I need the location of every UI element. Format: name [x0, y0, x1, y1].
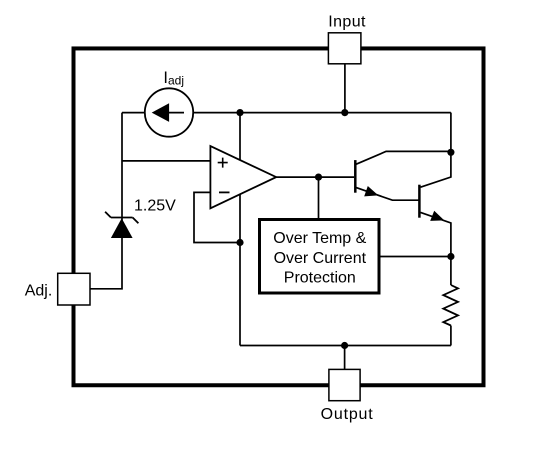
wire: feedback vertical from top rail down to bottom rail — [239, 113, 241, 346]
svg-text:Output: Output — [321, 406, 374, 423]
wire: top horizontal rail from left vertical to right vertical — [122, 112, 451, 114]
current source I_adj — [145, 88, 193, 136]
wire: output node to output pin — [344, 346, 346, 370]
junction node: op-amp output — [315, 174, 322, 181]
wire: Q1 collector — [356, 151, 451, 164]
resistor R1 — [443, 285, 458, 326]
wire: output node down into protection box — [318, 177, 320, 219]
junction node: input rail — [341, 109, 348, 116]
wire: bottom horizontal rail — [240, 345, 451, 347]
junction node: feedback top — [236, 109, 243, 116]
Output terminal pin — [329, 369, 360, 400]
wire: op-amp inverting input feedback loop — [194, 192, 240, 242]
junction node: output rail — [341, 342, 348, 349]
svg-text:Adj.: Adj. — [25, 283, 53, 300]
wire: protection box output to emitter node — [379, 256, 451, 258]
zener diode D1 1.25V — [105, 212, 138, 238]
svg-text:Input: Input — [328, 13, 366, 30]
junction node: protection/emitter — [447, 253, 454, 260]
wire: input pin to main rail — [344, 64, 346, 113]
svg-text:Iadj: Iadj — [163, 69, 184, 88]
transistor Q1 — [355, 160, 378, 196]
wire: Q1 emitter to Q2 base — [356, 188, 420, 201]
wire: op-amp noninverting input — [122, 160, 211, 162]
op-amp U1 — [210, 146, 276, 208]
Adj terminal pin — [58, 273, 90, 305]
wire: resistor bottom to bottom rail — [450, 326, 452, 346]
svg-text:1.25V: 1.25V — [134, 197, 176, 214]
wire: op-amp output to Q1 base — [276, 176, 354, 178]
wire: right vertical from top rail to Q1 collector node — [450, 113, 452, 153]
wire: Q2 collector to collector node — [421, 152, 451, 187]
transistor Q2 — [419, 185, 444, 221]
wire: Q2 emitter down to resistor — [421, 212, 451, 285]
junction node: Q1/Q2 collector — [447, 149, 454, 156]
over temp & over current protection box — [260, 220, 380, 294]
junction node: inverting feedback — [236, 239, 243, 246]
outer IC boundary box — [74, 48, 484, 385]
svg-text:Over Temp &: Over Temp & — [273, 230, 366, 247]
svg-text:Over Current: Over Current — [274, 250, 367, 267]
Input terminal pin — [328, 33, 361, 64]
svg-text:Protection: Protection — [284, 270, 356, 287]
wire: left vertical (current source / zener / Adj branch) — [90, 113, 122, 289]
